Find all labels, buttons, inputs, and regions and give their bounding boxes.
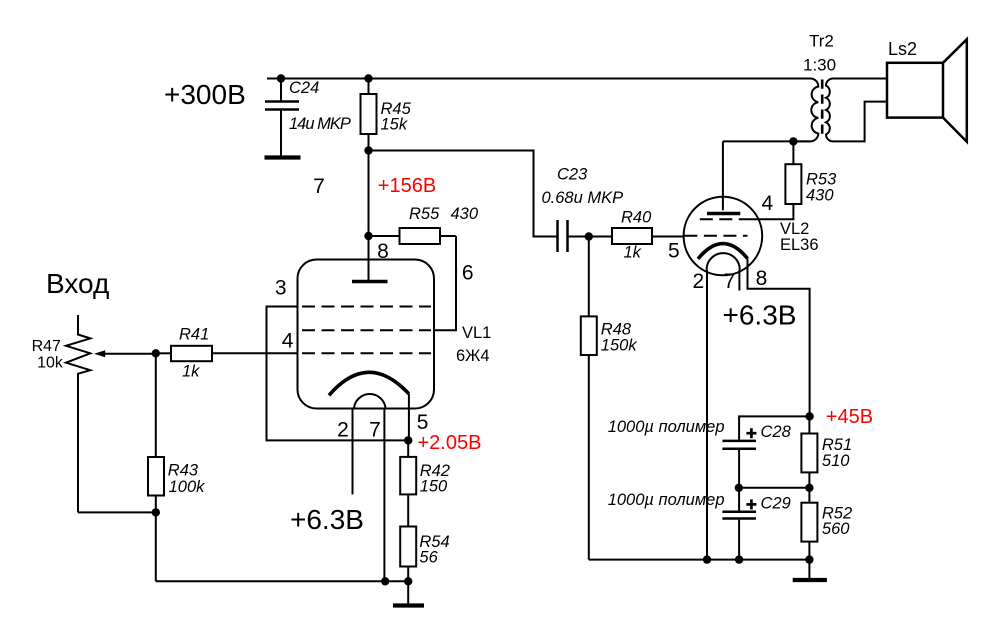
svg-text:5: 5 [668, 239, 680, 262]
svg-text:+300В: +300В [164, 79, 246, 110]
svg-text:150: 150 [420, 478, 448, 496]
wire C29 node to R51 bottom [739, 487, 809, 489]
node C23/R40/R48 [585, 232, 593, 240]
speaker Ls2 cone [943, 39, 967, 141]
svg-text:+2.05В: +2.05В [418, 432, 482, 454]
capacitor C23 [558, 220, 589, 252]
node anode/R53/primary [789, 137, 797, 145]
VL1 heater arc [354, 394, 386, 409]
node R54 at rail [404, 577, 412, 585]
node C28/C29/R51 [735, 484, 743, 492]
svg-text:56: 56 [419, 549, 438, 567]
svg-text:14u MKP: 14u MKP [289, 115, 351, 133]
VL2 heater pin 2 lead [706, 270, 708, 560]
node R45 bottom [364, 146, 372, 154]
svg-text:R47: R47 [32, 338, 61, 355]
VL1 anode stem [368, 236, 370, 280]
svg-text:Вход: Вход [46, 268, 109, 299]
VL1 grid 3 (pin 3) dashed [302, 306, 431, 308]
VL2 heater arc [707, 253, 740, 270]
svg-text:7: 7 [724, 270, 736, 293]
svg-text:+156В: +156В [378, 175, 436, 197]
svg-text:1:30: 1:30 [803, 55, 836, 74]
resistor R53 [785, 141, 801, 204]
VL2 anode plate [707, 212, 740, 216]
VL1 cathode arc [329, 372, 409, 395]
svg-text:2: 2 [337, 418, 349, 441]
VL1 cathode lead to node [408, 394, 410, 441]
wire VL2 pin 4 to R53 [748, 204, 794, 219]
svg-text:R41: R41 [179, 326, 209, 344]
resistor R54 [400, 527, 416, 582]
svg-text:4: 4 [282, 330, 294, 353]
wire bottom left rail [156, 580, 408, 582]
svg-text:VL1: VL1 [462, 324, 491, 342]
node VL1 anode / R55 [364, 232, 372, 240]
wire R55 to VL1 pin 6 [434, 236, 456, 330]
resistor R55 [369, 228, 457, 244]
VL1 grid 2 (pin 6) dashed [302, 329, 431, 331]
VL2 screen grid dashed (pin 4) [700, 218, 748, 220]
svg-text:+6.3В: +6.3В [290, 504, 364, 535]
wire ground rail right [589, 559, 810, 561]
resistor R52 [801, 488, 817, 560]
wire R45 bottom to C23 [369, 151, 558, 237]
node pin7 at rail [381, 577, 389, 585]
svg-text:15k: 15k [381, 116, 408, 134]
resistor R45 [361, 79, 377, 151]
wire VL2 anode to transformer [723, 140, 810, 142]
svg-text:1k: 1k [624, 244, 642, 262]
tube VL2 envelope [684, 197, 763, 276]
ground VL2 [793, 560, 827, 580]
svg-text:Tr2: Tr2 [809, 31, 834, 50]
wiper arrow wire [104, 353, 156, 355]
node +300V at R45 [364, 74, 372, 82]
svg-text:R43: R43 [168, 462, 199, 480]
node +45V [805, 412, 813, 420]
VL2 heater pin 7 lead [738, 270, 740, 291]
VL2 cathode arc [698, 244, 748, 259]
node C29 at rail [735, 555, 743, 563]
svg-text:560: 560 [822, 520, 850, 538]
wire +300V top rail [267, 78, 811, 80]
wire pot bottom to R43 node [78, 511, 156, 513]
svg-text:C28: C28 [761, 423, 792, 441]
svg-text:2: 2 [693, 270, 705, 293]
VL1 grid 1 (pin 4) dashed [302, 352, 431, 354]
VL2 anode stem [722, 141, 724, 210]
VL1 heater pin 2 lead [352, 409, 354, 495]
svg-text:R40: R40 [621, 208, 652, 226]
svg-text:Ls2: Ls2 [888, 39, 917, 59]
wire pin 4 to R41 [212, 352, 298, 354]
svg-text:+45В: +45В [826, 406, 873, 428]
svg-text:6Ж4: 6Ж4 [456, 347, 490, 365]
resistor R42 [400, 440, 416, 526]
svg-text:0.68u MKP: 0.68u MKP [542, 189, 624, 207]
VL2 cathode pin 8 wire [748, 259, 810, 417]
svg-text:10k: 10k [37, 354, 64, 371]
wire pin 3 feedback loop [267, 307, 409, 441]
node R43/pot [152, 508, 160, 516]
transformer Tr2 core [821, 80, 824, 139]
wire R41 node down to R43 [155, 353, 157, 457]
wire secondary top to speaker [833, 78, 887, 80]
capacitor C28 [722, 441, 756, 488]
wire secondary bottom to speaker [833, 102, 887, 142]
svg-text:1000µ полимер: 1000µ полимер [608, 491, 725, 509]
svg-text:C24: C24 [289, 79, 319, 97]
node cathode R42 [404, 436, 412, 444]
svg-text:C23: C23 [557, 166, 588, 184]
capacitor C24 [265, 79, 299, 157]
transformer Tr2 primary winding [793, 79, 818, 142]
resistor R48 [581, 237, 597, 560]
svg-text:7: 7 [369, 418, 381, 441]
node R52 at rail [805, 555, 813, 563]
ground bar below C24 [265, 155, 301, 159]
polarity plus C29 [746, 499, 756, 509]
svg-text:5: 5 [417, 411, 429, 434]
wire R43 bottom [155, 496, 157, 582]
wire R45 bottom down to VL1 anode node [368, 151, 370, 237]
ground VL1 [393, 581, 424, 605]
polarity plus C28 [746, 428, 756, 438]
wire +45V node to C28 [739, 416, 810, 439]
speaker Ls2 box [887, 63, 943, 118]
node pin2 at rail [703, 555, 711, 563]
svg-text:3: 3 [275, 276, 287, 299]
svg-text:C29: C29 [761, 494, 791, 512]
svg-text:R55: R55 [409, 205, 440, 223]
resistor R41 [171, 346, 212, 361]
tube VL1 envelope [298, 260, 435, 409]
resistor R43 [148, 457, 164, 496]
svg-text:6: 6 [462, 262, 474, 285]
svg-text:430: 430 [451, 205, 479, 223]
VL1 heater pin 7 lead [383, 409, 385, 582]
node C24 top [277, 74, 285, 82]
svg-text:EL36: EL36 [780, 236, 819, 254]
svg-text:100k: 100k [169, 478, 206, 496]
VL2 control grid dashed (pin 5) [684, 235, 747, 237]
resistor R40 [589, 228, 684, 244]
svg-text:430: 430 [806, 187, 834, 205]
wire R41 to wiper node [156, 352, 171, 354]
VL1 anode plate [352, 280, 388, 284]
svg-text:8: 8 [756, 267, 768, 290]
potentiometer R47 zigzag [66, 315, 90, 512]
svg-text:+6.3В: +6.3В [723, 299, 797, 330]
wiper arrowhead [94, 350, 105, 357]
svg-text:7: 7 [313, 175, 325, 198]
node wiper/R41/R43 [152, 349, 160, 357]
svg-text:4: 4 [761, 192, 773, 215]
resistor R51 [801, 416, 817, 487]
transformer Tr2 secondary winding [826, 79, 833, 142]
capacitor C29 [722, 488, 756, 560]
node R51/R52 [805, 484, 813, 492]
svg-text:1000µ полимер: 1000µ полимер [608, 418, 725, 436]
svg-text:1k: 1k [182, 363, 200, 381]
svg-text:150k: 150k [601, 336, 638, 354]
svg-text:510: 510 [822, 452, 850, 470]
